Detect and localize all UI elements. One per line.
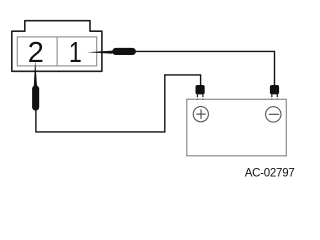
tester probe at pin 1 : needle — [87, 51, 113, 54]
battery positive terminal circle — [193, 107, 208, 122]
connector shell outer outline with top tab — [12, 21, 102, 72]
tester probe at pin 2 : needle — [34, 60, 37, 85]
plus sign inside positive terminal — [196, 113, 206, 115]
connector inner housing rectangle — [17, 37, 96, 66]
svg-text:2: 2 — [28, 37, 44, 69]
battery positive terminal post — [196, 85, 205, 94]
wire from probe 2 to battery positive post — [36, 75, 201, 132]
tester probe at pin 2 : body — [32, 85, 39, 110]
wire from probe 1 to battery negative post — [136, 51, 275, 85]
svg-text:AC-02797: AC-02797 — [245, 167, 295, 179]
tester probe at pin 1 : body — [112, 48, 136, 55]
battery case — [187, 99, 286, 156]
cavity divider between pin 2 and pin 1 — [56, 37, 58, 66]
battery negative terminal circle — [266, 107, 281, 122]
positive post hidden prongs (dashed) — [196, 94, 198, 99]
minus sign inside negative terminal — [269, 113, 279, 115]
battery negative terminal post — [270, 85, 279, 94]
svg-text:1: 1 — [69, 35, 82, 68]
negative post hidden prongs (dashed) — [271, 94, 273, 99]
